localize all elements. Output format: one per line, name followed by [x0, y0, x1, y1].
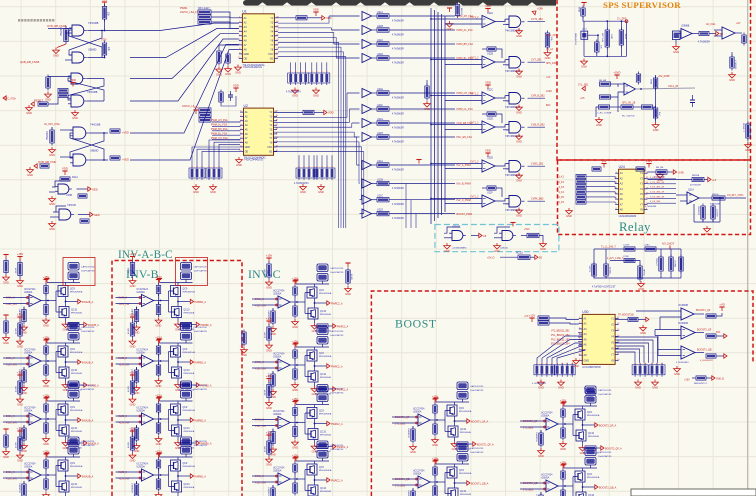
- svg-text:+12V: +12V: [646, 159, 653, 163]
- wire: [23, 307, 25, 310]
- svg-text:U30: U30: [582, 310, 588, 314]
- resistor A4-R2: [22, 482, 26, 496]
- svg-text:U2.3: U2.3: [582, 29, 587, 31]
- svg-text:QC9: QC9: [459, 408, 464, 410]
- svg-text:U2: U2: [244, 104, 248, 108]
- resistor R26: [303, 110, 314, 114]
- ground: [266, 343, 273, 353]
- wire loop SPS input: [584, 21, 627, 56]
- wire: [169, 311, 172, 313]
- resistor pack boost left: [538, 316, 549, 325]
- svg-text:4.7k/0603R: 4.7k/0603R: [392, 169, 404, 171]
- wire: [305, 433, 308, 435]
- svg-text:CVT1_2: CVT1_2: [470, 17, 479, 19]
- wire: [56, 409, 58, 411]
- svg-text:UCC27424: UCC27424: [541, 475, 553, 477]
- resistor B3-R4: [156, 421, 160, 436]
- svg-text:U21G: U21G: [377, 118, 383, 121]
- wire: [495, 125, 509, 127]
- resistor R21: [226, 52, 230, 66]
- svg-text:QC10: QC10: [71, 428, 78, 430]
- ground: [175, 382, 182, 392]
- svg-text:IRF640NS/A: IRF640NS/A: [587, 476, 600, 479]
- ground: [516, 28, 523, 38]
- svg-text:IRF640NS/A: IRF640NS/A: [587, 414, 600, 417]
- ground: [270, 389, 277, 399]
- electrolytic capacitor BD1-C1: [457, 382, 468, 390]
- ground: [21, 385, 28, 395]
- wire: [389, 164, 455, 166]
- svg-text:INVC_H: INVC_H: [255, 298, 264, 301]
- capacitor C44: [679, 255, 683, 274]
- svg-text:IRF640NS/A: IRF640NS/A: [70, 465, 83, 468]
- svg-text:PWM_BH_FSA: PWM_BH_FSA: [457, 43, 474, 46]
- wires RP1 to U1: [211, 12, 239, 28]
- port arrow: [196, 383, 199, 387]
- wire: [185, 340, 187, 343]
- svg-text:INVC_H: INVC_H: [255, 475, 264, 478]
- electrolytic capacitor A4-C1: [68, 437, 79, 445]
- mid node wire: [454, 478, 456, 488]
- ground: [538, 380, 545, 390]
- svg-text:IRF640NS/A: IRF640NS/A: [183, 465, 196, 468]
- resistor RB5: [696, 376, 706, 380]
- svg-text:PWRC2_A: PWRC2_A: [331, 423, 343, 426]
- wire: [185, 280, 187, 283]
- wire: [495, 60, 509, 62]
- svg-text:C23B: C23B: [623, 256, 629, 258]
- wire: [462, 461, 464, 464]
- ground: [21, 325, 28, 335]
- resistor network: [632, 363, 648, 377]
- wire op-amp out: [290, 364, 305, 366]
- resistor BD4-R3: [561, 469, 565, 482]
- svg-text:IRF640NS/A: IRF640NS/A: [319, 355, 332, 358]
- power VDD: [157, 453, 162, 457]
- svg-text:4k7B: 4k7B: [624, 34, 626, 40]
- svg-text:C_RC_T04/4R: C_RC_T04/4R: [597, 113, 612, 115]
- svg-text:+15V: +15V: [129, 252, 136, 256]
- svg-text:GND: GND: [266, 406, 272, 410]
- wire: [610, 106, 622, 108]
- ground: [216, 67, 223, 77]
- AND gate U8-0: [506, 16, 525, 28]
- resistor R73: [692, 177, 704, 181]
- svg-text:UCC28070PW: UCC28070PW: [582, 365, 601, 369]
- resistor left edge: [4, 258, 8, 275]
- resistor R83: [638, 264, 642, 282]
- drain rail wire: [564, 405, 597, 407]
- svg-text:SPS SUPERVISOR: SPS SUPERVISOR: [603, 0, 681, 10]
- svg-text:U2000A: U2000A: [24, 410, 33, 413]
- wire: [48, 98, 58, 104]
- svg-text:PWM_AL_FSA: PWM_AL_FSA: [211, 124, 227, 127]
- wire: [136, 307, 138, 310]
- resistor B4-R2: [134, 482, 138, 496]
- svg-text:GND: GND: [216, 72, 222, 76]
- power VDD: [485, 81, 491, 89]
- svg-text:+15V: +15V: [266, 431, 273, 435]
- svg-text:GND: GND: [241, 353, 247, 357]
- source wire: [314, 319, 316, 323]
- wire: [412, 426, 414, 429]
- wire: [434, 475, 436, 486]
- ground: [43, 378, 50, 388]
- svg-text:+15V: +15V: [266, 374, 273, 378]
- wire: [48, 76, 71, 78]
- Relay region dashed border: [558, 160, 751, 235]
- resistor BD3-R4: [433, 484, 437, 496]
- power VDD: [62, 167, 68, 175]
- drain rail wire: [296, 460, 329, 462]
- IC U30 UCC28070: [579, 310, 620, 369]
- svg-text:10uF/CAP/X5: 10uF/CAP/X5: [81, 444, 95, 447]
- sheet border right: [747, 0, 749, 496]
- svg-text:INVA_H: INVA_H: [6, 415, 15, 418]
- wire: [322, 344, 324, 347]
- svg-text:PWRBD: PWRBD: [46, 131, 49, 140]
- svg-text:QC9: QC9: [319, 411, 324, 413]
- AND gate: [499, 231, 516, 241]
- resistor A2-R3: [44, 344, 48, 357]
- series resistor R38: [377, 163, 389, 167]
- resistor A1-R4: [44, 302, 48, 317]
- wire op-amp out: [154, 300, 169, 302]
- svg-text:QC10: QC10: [71, 310, 78, 312]
- resistor BD2-R4: [561, 426, 565, 441]
- AND gate U6B: [68, 95, 87, 107]
- svg-text:6_K6_2B6: 6_K6_2B6: [650, 201, 661, 203]
- port arrow: [716, 31, 719, 35]
- svg-text:GND: GND: [674, 372, 680, 376]
- wire: [500, 256, 518, 258]
- ground: [17, 397, 24, 407]
- transistor A1-Q1: [58, 286, 68, 297]
- resistor R72: [656, 170, 667, 174]
- svg-text:GND: GND: [704, 232, 710, 236]
- svg-text:IRF640NS/A: IRF640NS/A: [183, 409, 196, 412]
- svg-text:CAP/10V/220: CAP/10V/220: [330, 330, 344, 333]
- wire: [185, 454, 187, 457]
- svg-text:+15V: +15V: [129, 371, 136, 375]
- svg-text:IRF640NS/A: IRF640NS/A: [70, 351, 83, 354]
- resistor A1-R2: [22, 307, 26, 324]
- ground: [241, 347, 248, 357]
- AND gate U8-1: [506, 57, 525, 69]
- mid node wire: [314, 361, 316, 371]
- power VDD: [44, 453, 49, 457]
- svg-text:GND: GND: [444, 249, 450, 253]
- svg-text:PFC_EN_FSA: PFC_EN_FSA: [457, 136, 473, 139]
- electrolytic capacitor B1-C1: [181, 263, 192, 271]
- ground: [193, 184, 200, 194]
- selection box: [63, 258, 95, 286]
- buffer U21-4: [347, 89, 377, 98]
- wires op-amp inputs: [430, 18, 482, 24]
- ground: [345, 286, 352, 296]
- op-amp driver C1: [278, 296, 290, 308]
- svg-text:GND: GND: [313, 93, 319, 97]
- svg-text:QC9: QC9: [70, 289, 75, 291]
- svg-text:UC4B4R7: UC4B4R7: [409, 427, 411, 438]
- svg-text:AC_FAIL: AC_FAIL: [706, 23, 716, 26]
- transistor B4-Q2: [172, 481, 182, 492]
- svg-text:IRF640S/A: IRF640S/A: [320, 376, 331, 379]
- electrolytic capacitor B4-C2: [181, 447, 192, 455]
- wire: [169, 372, 172, 374]
- resistor B3-R2: [134, 426, 138, 443]
- svg-text:GND: GND: [17, 458, 23, 462]
- svg-text:IRF640S/A: IRF640S/A: [184, 312, 195, 315]
- latch cross-coupling wires: [60, 130, 108, 161]
- wire: [221, 96, 236, 106]
- svg-text:U21F: U21F: [377, 104, 383, 107]
- svg-text:49.9R: 49.9R: [265, 332, 267, 338]
- wire: [169, 430, 172, 432]
- port arrow: [595, 485, 598, 489]
- power VDD: [44, 397, 49, 401]
- svg-text:PWRB2_A: PWRB2_A: [195, 361, 207, 364]
- port arrow: [322, 16, 325, 20]
- svg-text:4.7k/0603R: 4.7k/0603R: [392, 20, 404, 22]
- buffer U21-1: [331, 26, 377, 35]
- resistor A3-R1: [18, 379, 22, 397]
- wire: [136, 481, 138, 484]
- resistor C4-R4: [293, 481, 297, 496]
- resistor BD1-R3: [433, 403, 437, 416]
- transistor B3-Q1: [171, 404, 181, 415]
- svg-text:4.7k/0603RX: 4.7k/0603RX: [676, 362, 689, 364]
- svg-text:+15V: +15V: [17, 252, 24, 256]
- electrolytic capacitor BD4-C1: [585, 448, 596, 456]
- wire: [389, 122, 455, 124]
- AND gate: [449, 231, 466, 241]
- svg-text:+12V: +12V: [529, 314, 536, 318]
- svg-text:INV-B: INV-B: [126, 267, 159, 281]
- power VDD: [560, 399, 567, 407]
- transistor BD4-Q1: [575, 471, 585, 482]
- resistor B1-R1: [130, 260, 134, 278]
- series resistor R33: [377, 56, 389, 60]
- AND gate U10A: [55, 184, 72, 194]
- svg-text:PWRB2_A: PWRB2_A: [195, 419, 207, 422]
- series resistor R39: [377, 181, 389, 185]
- drain rail wire: [47, 282, 80, 284]
- resistor R3: [102, 41, 106, 58]
- wire: [45, 294, 47, 305]
- power VDD: [447, 8, 452, 12]
- resistor A4-R4: [44, 477, 48, 492]
- buffer U21-11: [360, 209, 378, 218]
- latch cross-coupling wires: [68, 78, 104, 101]
- power VDD: [485, 149, 491, 157]
- svg-text:U10B: U10B: [66, 194, 72, 197]
- svg-text:GND: GND: [540, 247, 546, 251]
- wire: [73, 454, 75, 457]
- wire: [272, 485, 274, 488]
- transistor C3-Q2: [308, 429, 318, 440]
- transistor B2-Q2: [172, 367, 182, 378]
- relay input labels: [559, 177, 565, 205]
- resistor network: [296, 166, 317, 180]
- svg-text:4.7k/0603R: 4.7k/0603R: [645, 206, 657, 208]
- net label rows: [551, 331, 570, 346]
- svg-text:QC9: QC9: [319, 353, 324, 355]
- output wire: [528, 165, 546, 167]
- ground: [266, 457, 273, 467]
- power VDD: [292, 340, 299, 348]
- svg-text:CAP/10V/220: CAP/10V/220: [598, 451, 612, 454]
- svg-text:NT/0603R: NT/0603R: [710, 204, 720, 206]
- ground: [292, 319, 299, 329]
- svg-text:CVT1_2: CVT1_2: [470, 94, 479, 96]
- svg-text:VDD: VDD: [101, 38, 107, 42]
- ground: [43, 436, 50, 446]
- svg-text:T1_L1_1AE_T: T1_L1_1AE_T: [601, 246, 616, 249]
- svg-text:UCC27424: UCC27424: [24, 350, 36, 352]
- wires boost opamp feed: [636, 311, 681, 356]
- transistor A2-Q1: [58, 346, 68, 357]
- ground: [133, 325, 140, 335]
- svg-text:4.7k/0603RX4: 4.7k/0603RX4: [286, 92, 301, 94]
- wire op-amp out: [41, 418, 56, 420]
- svg-text:U2000A: U2000A: [137, 466, 146, 469]
- power VDD: [43, 450, 50, 458]
- ground: [270, 326, 277, 336]
- svg-text:U9B/8D: U9B/8D: [90, 150, 99, 153]
- transistor B2-Q1: [171, 346, 181, 357]
- capacitor C43: [669, 255, 673, 274]
- resistor A2-R2: [22, 368, 26, 385]
- ground: [446, 21, 453, 31]
- ground: [43, 318, 50, 328]
- gate trunk wire: [168, 352, 170, 373]
- ground: [313, 88, 320, 98]
- ground: [62, 382, 69, 392]
- port arrow: [673, 170, 676, 174]
- power VDD: [529, 314, 536, 322]
- svg-text:GND: GND: [266, 348, 272, 352]
- svg-text:+VED: +VED: [122, 158, 129, 162]
- resistor R52: [730, 55, 734, 71]
- svg-text:UC4B4R7: UC4B4R7: [269, 486, 271, 496]
- source wire: [314, 440, 316, 444]
- wire: [389, 183, 455, 185]
- port arrow: [78, 299, 81, 303]
- power VDD: [155, 275, 162, 283]
- wire: [426, 80, 428, 86]
- svg-text:4.7k/0603R: 4.7k/0603R: [392, 113, 404, 115]
- resistor R41: [425, 84, 429, 101]
- svg-text:10uF/CAP/X5: 10uF/CAP/X5: [81, 388, 95, 391]
- ground: [21, 443, 28, 453]
- wire: [445, 493, 448, 495]
- svg-text:GND: GND: [156, 442, 162, 446]
- wire op-amp out: [290, 478, 305, 480]
- svg-text:+VED: +VED: [122, 131, 129, 135]
- svg-text:CAP/10V/220: CAP/10V/220: [470, 385, 484, 388]
- svg-text:GND: GND: [210, 190, 216, 194]
- svg-text:+C5: +C5: [580, 97, 585, 100]
- wire: [482, 113, 487, 115]
- svg-text:DC1A6: DC1A6: [609, 267, 612, 275]
- svg-text:R114: R114: [72, 176, 78, 179]
- svg-text:PWRB2_A: PWRB2_A: [195, 301, 207, 304]
- svg-text:IRF640NS/A: IRF640NS/A: [319, 469, 332, 472]
- capacitor C30: [690, 95, 695, 107]
- op-amp driver A1: [29, 295, 41, 307]
- svg-text:VDD: VDD: [233, 84, 239, 88]
- resistor C1-R1: [267, 262, 271, 280]
- svg-text:10uF/CAP/X5: 10uF/CAP/X5: [330, 392, 344, 395]
- svg-text:4.7k/0603: 4.7k/0603: [734, 60, 736, 70]
- svg-text:UC4B4R7: UC4B4R7: [132, 482, 134, 493]
- svg-text:INV_A_PWM: INV_A_PWM: [457, 164, 471, 167]
- svg-text:IRF640S/A: IRF640S/A: [71, 430, 82, 433]
- resistor R65: [636, 72, 640, 85]
- transistor C4-Q1: [307, 464, 317, 475]
- svg-text:GND: GND: [156, 323, 162, 327]
- mid node wire: [177, 297, 179, 307]
- svg-text:U21A: U21A: [377, 11, 383, 14]
- svg-text:GND: GND: [560, 447, 566, 451]
- svg-text:74HC08: 74HC08: [67, 204, 76, 207]
- svg-text:4.7k/0603R: 4.7k/0603R: [392, 141, 404, 143]
- port arrow: [479, 233, 482, 237]
- wire: [169, 409, 171, 411]
- wire: [272, 308, 274, 311]
- buffer U21-9: [359, 179, 377, 188]
- wire: [322, 458, 324, 461]
- svg-text:CVB_R_2B2: CVB_R_2B2: [531, 124, 545, 127]
- wires op-amp inputs: [116, 357, 142, 365]
- resistor R71: [636, 167, 645, 171]
- resistor C4-R3: [293, 462, 297, 475]
- op-amp U7-0: [482, 16, 495, 28]
- svg-text:IRF640S/A: IRF640S/A: [184, 372, 195, 375]
- svg-text:U2000A: U2000A: [137, 352, 146, 355]
- svg-text:CAP/10V/220: CAP/10V/220: [330, 444, 344, 447]
- ground: [516, 173, 523, 183]
- source wire: [65, 318, 67, 322]
- wire: [23, 367, 25, 370]
- svg-text:U22B: U22B: [487, 53, 493, 56]
- svg-text:+15V: +15V: [266, 254, 273, 258]
- svg-text:INV_B_PWM: INV_B_PWM: [457, 183, 471, 186]
- svg-text:CVT1_2: CVT1_2: [470, 123, 479, 125]
- svg-text:BOOST1_QB: BOOST1_QB: [697, 349, 712, 352]
- drain rail wire: [160, 282, 193, 284]
- power VDD: [561, 464, 566, 468]
- ground: [49, 196, 56, 206]
- svg-text:ULN2003ADR: ULN2003ADR: [619, 214, 637, 218]
- wire op-amp out: [154, 474, 169, 476]
- wire: [23, 481, 25, 484]
- power VDD: [433, 398, 438, 402]
- electrolytic capacitor B2-C1: [181, 323, 192, 331]
- resistor C3-R3: [293, 405, 297, 418]
- ground: [129, 339, 136, 349]
- series resistor R34: [377, 91, 389, 95]
- svg-text:GED: GED: [94, 213, 100, 217]
- wires op-amp inputs: [520, 420, 546, 428]
- wires op-amp inputs: [116, 297, 142, 305]
- wire out: [699, 197, 712, 199]
- resistor RB4: [706, 354, 716, 358]
- ground: [236, 157, 243, 167]
- wires op-amp inputs: [3, 415, 29, 423]
- ground: [266, 280, 273, 290]
